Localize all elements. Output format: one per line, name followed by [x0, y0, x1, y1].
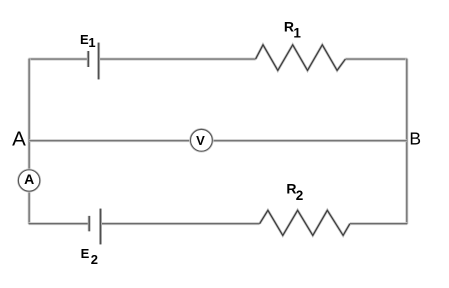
battery E1 (short negative plate) [87, 51, 90, 67]
svg-text:V: V [196, 133, 205, 148]
wire: bottom-right horizontal (resistor R2 to bottom-right corner) [350, 222, 407, 225]
ammeter A (circle) [18, 170, 39, 191]
svg-text:A: A [24, 171, 34, 187]
svg-text:2: 2 [296, 188, 304, 203]
wire: right vertical (top-right corner through node B to bottom-right corner) [405, 59, 408, 225]
wire: left vertical upper (top-left corner to node A) [28, 59, 31, 141]
wire: left vertical middle (node A to ammeter top) [28, 141, 31, 171]
label E2 [81, 246, 98, 267]
battery E1 (long positive plate) [97, 43, 100, 80]
battery E2 (short negative plate) [88, 216, 91, 231]
wire: middle horizontal right (voltmeter to node B) [212, 139, 406, 142]
label R2 [286, 181, 303, 203]
wire: top-left horizontal (top-left corner to battery E1) [29, 58, 88, 61]
wire: bottom-middle horizontal (battery E2 to resistor R2) [101, 222, 260, 225]
battery E2 (long positive plate) [99, 209, 102, 245]
wire: middle horizontal left (node A to voltmeter) [29, 139, 190, 142]
svg-text:B: B [409, 129, 421, 149]
svg-text:E: E [81, 246, 90, 261]
resistor R1 (zigzag) [256, 45, 346, 71]
svg-text:A: A [12, 128, 26, 151]
svg-text:1: 1 [88, 35, 95, 50]
wire: bottom-left horizontal (bottom-left corner to battery E2) [29, 222, 89, 225]
resistor R2 (zigzag) [260, 210, 350, 235]
label E1 [80, 32, 96, 50]
svg-text:2: 2 [91, 252, 98, 267]
label R1 [284, 19, 302, 41]
svg-text:1: 1 [293, 25, 301, 40]
wire: top-middle horizontal (battery E1 to resistor R1) [99, 58, 256, 61]
voltmeter V (circle) [191, 129, 213, 151]
wire: left vertical lower (ammeter bottom to bottom-left corner) [28, 191, 31, 224]
wire: top-right horizontal (resistor R1 to top-right corner) [345, 58, 407, 61]
